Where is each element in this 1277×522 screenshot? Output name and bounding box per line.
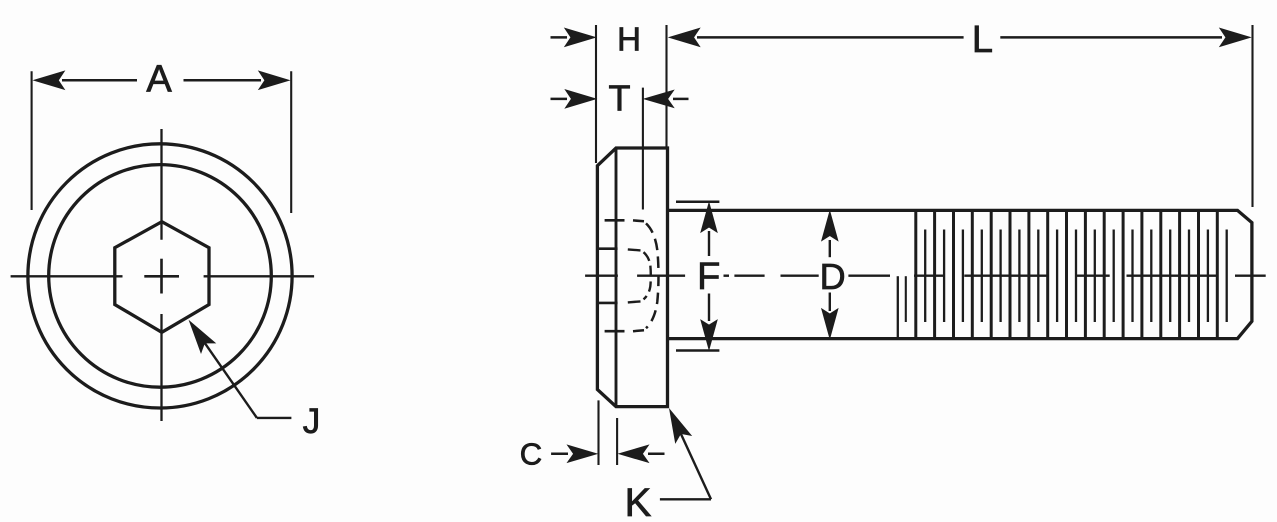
thread crest line 11 — [1103, 211, 1106, 338]
F down arrow — [708, 294, 710, 322]
thread root line 4 — [981, 230, 983, 323]
head chamfer edge line — [615, 148, 618, 407]
svg-text:A: A — [146, 59, 172, 101]
F up arrow — [701, 203, 717, 232]
socket corner tick 2 — [598, 247, 617, 250]
T right arrow — [645, 90, 674, 107]
thread crest line 2 — [933, 211, 936, 338]
thread crest line 3 — [952, 211, 955, 338]
thread root line 17 — [1226, 230, 1228, 323]
thread crest line 17 — [1216, 211, 1219, 338]
leader K lines — [660, 498, 711, 500]
hidden hex socket inner arc top dash — [628, 249, 641, 250]
hidden hex socket outer arc top dash — [633, 219, 644, 222]
thread root line 14 — [1169, 230, 1171, 323]
thread runout line 1 — [897, 276, 899, 338]
thread root line 12 — [1131, 230, 1133, 323]
svg-text:J: J — [303, 402, 321, 441]
thread root line 16 — [1207, 230, 1209, 323]
svg-text:C: C — [520, 437, 542, 472]
thread root line 9 — [1075, 230, 1077, 323]
hidden hex socket inner arc bottom dash — [628, 301, 641, 302]
thread runout root line 2 — [905, 276, 907, 322]
C extension line left — [597, 400, 599, 465]
thread root line 1 — [924, 230, 926, 323]
thread root line 3 — [962, 230, 964, 323]
hidden hex socket outer arc — [646, 223, 659, 328]
thread root line 15 — [1188, 230, 1190, 323]
svg-text:T: T — [609, 78, 631, 119]
thread root line 13 — [1150, 230, 1152, 323]
thread crest line 10 — [1084, 211, 1087, 338]
outer circle of screw head (front view) — [28, 144, 292, 408]
thread root line 10 — [1094, 230, 1096, 323]
F extension line bottom — [676, 349, 719, 352]
leader K arrow — [670, 410, 691, 443]
thread root line 6 — [1018, 230, 1020, 323]
thread crest line 9 — [1065, 211, 1068, 338]
C right arrow — [619, 445, 648, 462]
shank outline with chamfered tip — [668, 210, 1252, 338]
D down arrow — [829, 293, 831, 312]
thread crest line 5 — [990, 211, 993, 338]
thread crest line 7 — [1027, 211, 1030, 338]
thread crest line 4 — [971, 211, 974, 338]
T left arrow — [551, 98, 568, 101]
svg-text:L: L — [972, 19, 993, 61]
L extension line (screw tip) — [1251, 25, 1253, 207]
socket corner tick 3 — [598, 302, 617, 305]
svg-text:H: H — [617, 21, 641, 58]
H extension line (head bearing face) — [665, 25, 667, 148]
svg-text:D: D — [820, 256, 846, 297]
thread crest line 8 — [1046, 211, 1049, 338]
screw head outline (side view) — [597, 148, 667, 407]
H left arrow — [551, 36, 568, 39]
hidden hex socket inner arc — [644, 252, 651, 299]
leader J arrow — [190, 321, 215, 352]
socket corner tick 1 — [605, 219, 625, 222]
F extension line top — [676, 200, 719, 203]
L dimension line and arrows — [670, 28, 700, 46]
svg-text:F: F — [697, 256, 720, 298]
H extension line (head top face) — [595, 25, 597, 163]
thread root line 7 — [1037, 230, 1039, 323]
svg-text:K: K — [625, 481, 652, 522]
leader J lines — [257, 417, 292, 419]
T extension line (socket depth) — [642, 88, 644, 210]
thread crest line 13 — [1140, 211, 1143, 338]
thread root line 11 — [1113, 230, 1115, 323]
C left arrow — [551, 453, 568, 456]
socket corner tick 4 — [605, 330, 625, 333]
thread crest line 16 — [1197, 211, 1200, 338]
thread crest line 6 — [1009, 211, 1012, 338]
hidden hex socket outer arc bottom dash — [633, 329, 644, 332]
thread crest line 14 — [1159, 211, 1162, 338]
dimension A extension lines — [31, 71, 33, 210]
thread root line 5 — [999, 230, 1001, 323]
vertical centerline of front view — [160, 129, 162, 240]
dimension A arrows and line — [34, 71, 64, 89]
thread crest line 1 — [914, 211, 917, 338]
C extension line right — [616, 418, 618, 465]
main centerline of screw — [585, 275, 618, 277]
thread crest line 15 — [1178, 211, 1181, 338]
thread root line 8 — [1056, 230, 1058, 323]
D up arrow — [822, 212, 838, 241]
thread root line 2 — [943, 230, 945, 323]
horizontal centerline of front view — [11, 275, 123, 277]
inner chamfer circle — [49, 165, 272, 388]
hex socket (front view) — [115, 222, 209, 333]
thread crest line 12 — [1122, 211, 1125, 338]
